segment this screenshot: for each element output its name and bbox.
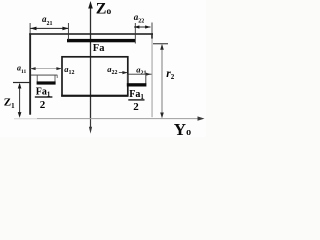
dimension a22 right arrowhead (145, 25, 151, 28)
axis Z0 arrowhead (88, 1, 93, 9)
force bar Fa (thick top bar) (67, 39, 136, 42)
axis Y0 arrowhead (198, 116, 205, 120)
outer body right edge dark stub (151, 33, 153, 39)
dimension Z1 top tick (13, 82, 30, 83)
dimension a22 line (134, 26, 151, 28)
left bearing box right side (54, 75, 56, 82)
axis Z0 lower extension down arrowhead (89, 127, 92, 134)
right guide line (128, 73, 152, 75)
fraction bar right (128, 99, 144, 100)
dimension r2 down arrowhead (160, 113, 164, 119)
dimension a21 line (31, 27, 69, 29)
dimension Z1 line (19, 84, 21, 116)
axis Z0 vertical line (90, 6, 92, 119)
dimension r2 up arrowhead (160, 44, 164, 50)
right bearing box left side (126, 74, 128, 83)
dimension a11 left arrowhead (30, 67, 35, 70)
right bearing box bottom bar (127, 83, 147, 86)
svg-text:Fa: Fa (93, 43, 105, 54)
dimension a22 left arrowhead (134, 25, 140, 28)
inner block rectangle (62, 57, 128, 96)
left guide line (31, 74, 57, 76)
dimension r2 top tick (153, 43, 168, 44)
arrowhead at inner right edge (122, 71, 127, 74)
left guide line end tick (56, 75, 58, 78)
outer body top edge (29, 33, 153, 35)
right bearing box right side (145, 74, 147, 83)
outer body right edge lower part (152, 39, 153, 118)
arrow to inner right edge (119, 72, 127, 74)
extension tick at x=30 top (29, 23, 31, 33)
left bearing box bottom bar (37, 81, 56, 84)
fraction bar left (35, 96, 53, 97)
dimension a21 left arrowhead (30, 27, 36, 31)
axis Y0 horizontal line faint left stub (14, 118, 37, 120)
extension tick at x=152 top (151, 23, 153, 34)
outer body left edge (29, 33, 31, 115)
svg-text:2: 2 (133, 101, 139, 113)
right guide line arrowhead (146, 73, 151, 76)
dimension a11 right arrowhead (56, 67, 61, 70)
inner block bottom edge (thicker) (61, 95, 128, 97)
left bearing box left side (36, 75, 38, 82)
extension tick at x=68 (67, 23, 69, 40)
dimension a11 line (31, 68, 62, 70)
dimension a21 right arrowhead (62, 27, 68, 31)
axis Y0 horizontal line (37, 118, 201, 120)
extension tick at x=135 (134, 23, 136, 44)
svg-text:2: 2 (40, 99, 46, 111)
dimension Z1 up arrowhead (18, 83, 22, 89)
axis Z0 lower extension below Y axis (90, 119, 92, 129)
dimension Z1 down arrowhead (18, 112, 22, 118)
dimension r2 line (161, 45, 163, 117)
